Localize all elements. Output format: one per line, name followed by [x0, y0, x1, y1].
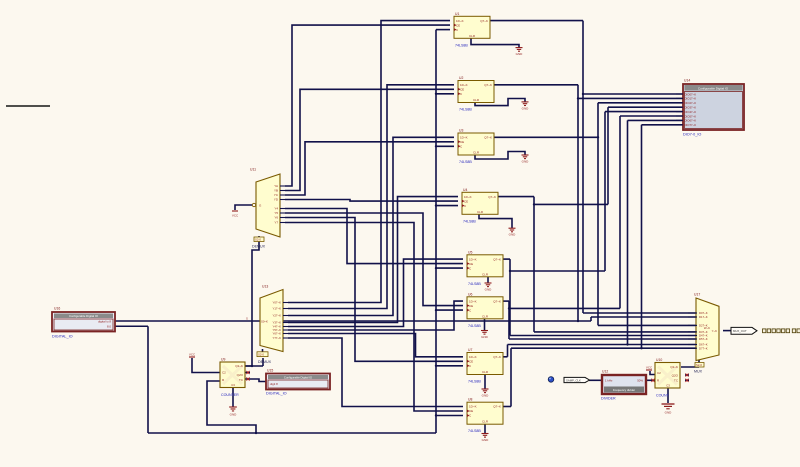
svg-text:GND: GND [481, 335, 489, 339]
svg-text:U4: U4 [463, 188, 467, 192]
svg-text:GND: GND [485, 288, 493, 292]
svg-text:CE: CE [460, 88, 464, 92]
svg-text:CLR: CLR [473, 98, 480, 102]
svg-text:W~K: W~K [704, 326, 710, 330]
svg-text:DEMUX: DEMUX [258, 360, 272, 364]
svg-text:Y17~K: Y17~K [273, 307, 282, 311]
svg-text:Y77~K: Y77~K [273, 336, 282, 340]
svg-text:GND: GND [482, 394, 490, 398]
svg-text:CLR: CLR [477, 210, 484, 214]
svg-text:74LS8B: 74LS8B [459, 160, 472, 164]
svg-text:1D~K: 1D~K [469, 405, 477, 409]
svg-text:74LS8B: 74LS8B [468, 429, 481, 433]
svg-text:Y~K: Y~K [712, 329, 717, 333]
svg-text:74LS8B: 74LS8B [468, 324, 481, 328]
svg-text:S2-0: S2-0 [255, 238, 261, 242]
svg-text:U16: U16 [54, 307, 60, 311]
svg-text:Q7~K: Q7~K [488, 195, 496, 199]
svg-text:MUX_OUT: MUX_OUT [733, 329, 747, 333]
svg-text:U6: U6 [468, 292, 472, 296]
svg-text:Y67~K: Y67~K [273, 332, 282, 336]
svg-text:Q7~K: Q7~K [493, 405, 501, 409]
svg-text:S2-0: S2-0 [258, 353, 264, 357]
svg-text:MUX: MUX [694, 370, 703, 374]
svg-text:74LS8B: 74LS8B [459, 108, 472, 112]
svg-text:VCC: VCC [232, 214, 239, 218]
svg-text:1D~K: 1D~K [460, 136, 468, 140]
svg-text:Q7~K: Q7~K [480, 19, 488, 23]
svg-text:CLR: CLR [482, 272, 489, 276]
svg-text:U12: U12 [602, 369, 608, 373]
svg-text:Y27~K: Y27~K [273, 314, 282, 318]
svg-text:DIO27~K: DIO27~K [685, 101, 697, 105]
svg-text:GND: GND [230, 412, 238, 416]
svg-text:DIGITAL_IO: DIGITAL_IO [266, 392, 287, 396]
svg-text:GND: GND [516, 52, 524, 56]
svg-text:Q7~K: Q7~K [493, 299, 501, 303]
svg-text:C2: C2 [657, 371, 661, 375]
svg-text:Y7: Y7 [274, 221, 278, 225]
svg-text:Q2O: Q2O [237, 373, 244, 377]
svg-text:D77~K: D77~K [699, 346, 708, 350]
svg-text:CE: CE [469, 262, 473, 266]
svg-text:Q7~K: Q7~K [493, 257, 501, 261]
svg-text:1D~K: 1D~K [460, 83, 468, 87]
svg-text:Q2O: Q2O [672, 374, 679, 378]
svg-text:CE: CE [464, 199, 468, 203]
svg-text:U14: U14 [684, 79, 690, 83]
svg-text:D17~K: D17~K [699, 315, 708, 319]
svg-text:Y4: Y4 [274, 207, 278, 211]
svg-text:DIO7-0_IO: DIO7-0_IO [683, 133, 701, 137]
svg-text:YB: YB [274, 189, 278, 193]
svg-text:DIO17~K: DIO17~K [685, 97, 697, 101]
svg-text:Q2~K: Q2~K [235, 364, 243, 368]
svg-text:CE: CE [469, 409, 473, 413]
svg-text:CE: CE [469, 360, 473, 364]
svg-text:1D~K: 1D~K [469, 299, 477, 303]
svg-text:Q7~K: Q7~K [493, 355, 501, 359]
svg-text:Configurable Digital IO: Configurable Digital IO [698, 86, 729, 90]
svg-text:U8: U8 [468, 398, 472, 402]
svg-text:DIO77~K: DIO77~K [685, 123, 697, 127]
svg-text:Q7~K: Q7~K [484, 83, 492, 87]
svg-text:DIO07~K: DIO07~K [685, 92, 697, 96]
svg-text:DIO37~K: DIO37~K [685, 106, 697, 110]
svg-text:DIO47~K: DIO47~K [685, 110, 697, 114]
svg-text:CLR: CLR [473, 151, 480, 155]
svg-text:50%: 50% [637, 379, 643, 383]
svg-text:1D~K: 1D~K [469, 257, 477, 261]
svg-text:Q7~K: Q7~K [484, 136, 492, 140]
svg-text:CLR: CLR [482, 370, 489, 374]
svg-text:U1: U1 [455, 12, 459, 16]
svg-text:1D~K: 1D~K [469, 355, 477, 359]
svg-text:Y07~K: Y07~K [273, 301, 282, 305]
svg-text:GND: GND [522, 106, 530, 110]
svg-text:U17: U17 [694, 293, 700, 297]
svg-text:Y6: Y6 [274, 216, 278, 220]
svg-text:DIVIDER: DIVIDER [601, 397, 616, 401]
svg-text:SAMP_CLK: SAMP_CLK [566, 378, 581, 382]
svg-text:D57~K: D57~K [699, 337, 708, 341]
svg-text:C2: C2 [222, 371, 226, 375]
svg-text:CLR: CLR [482, 420, 489, 424]
svg-text:digital io 8: digital io 8 [98, 319, 111, 323]
svg-text:U9: U9 [221, 358, 225, 362]
svg-text:S: S [246, 317, 248, 321]
svg-text:GND: GND [665, 411, 673, 415]
svg-text:VCC: VCC [189, 353, 196, 357]
svg-text:VCC: VCC [646, 366, 653, 370]
svg-text:S2-0: S2-0 [696, 363, 702, 367]
svg-text:Configurable Digital IO: Configurable Digital IO [69, 314, 99, 318]
svg-text:CE: CE [460, 140, 464, 144]
svg-text:Configurable Digital IO: Configurable Digital IO [284, 375, 313, 379]
svg-text:Q2~K: Q2~K [670, 365, 678, 369]
svg-text:74LS8B: 74LS8B [455, 43, 468, 47]
svg-text:GND: GND [522, 160, 530, 164]
svg-text:U5: U5 [468, 250, 472, 254]
svg-text:U3: U3 [459, 129, 463, 133]
svg-text:DIGITAL_IO: DIGITAL_IO [52, 335, 73, 339]
svg-text:8.0: 8.0 [107, 324, 111, 328]
svg-text:DEMUX: DEMUX [252, 245, 266, 249]
svg-text:digit 8: digit 8 [270, 382, 278, 386]
svg-text:YA: YA [274, 184, 278, 188]
svg-text:COUNT: COUNT [656, 394, 670, 398]
svg-text:1 kHz: 1 kHz [605, 379, 613, 383]
svg-text:U13: U13 [262, 285, 268, 289]
svg-text:U7: U7 [468, 348, 472, 352]
svg-text:CE: CE [456, 23, 460, 27]
svg-text:DIO67~K: DIO67~K [685, 119, 697, 123]
svg-text:74LS8B: 74LS8B [468, 380, 481, 384]
svg-text:Frequency divider: Frequency divider [613, 388, 635, 392]
svg-text:C3: C3 [666, 384, 670, 388]
svg-text:U11: U11 [250, 168, 256, 172]
svg-text:Y5: Y5 [274, 211, 278, 215]
svg-text:COUNTER: COUNTER [221, 393, 239, 397]
svg-text:CLR: CLR [469, 34, 476, 38]
svg-text:1D~K: 1D~K [456, 19, 464, 23]
svg-text:1D~K: 1D~K [464, 195, 472, 199]
svg-text:CLR: CLR [482, 314, 489, 318]
svg-text:74LS8B: 74LS8B [463, 219, 476, 223]
svg-text:CE: CE [469, 304, 473, 308]
svg-text:GND: GND [482, 438, 490, 442]
svg-text:74LS8B: 74LS8B [468, 282, 481, 286]
svg-text:U2: U2 [459, 76, 463, 80]
svg-text:U15: U15 [267, 369, 273, 373]
svg-text:DIO57~K: DIO57~K [685, 114, 697, 118]
svg-text:S0~K: S0~K [261, 320, 268, 324]
svg-text:U10: U10 [656, 358, 662, 362]
svg-text:GND: GND [509, 233, 517, 237]
svg-text:C3: C3 [231, 383, 235, 387]
